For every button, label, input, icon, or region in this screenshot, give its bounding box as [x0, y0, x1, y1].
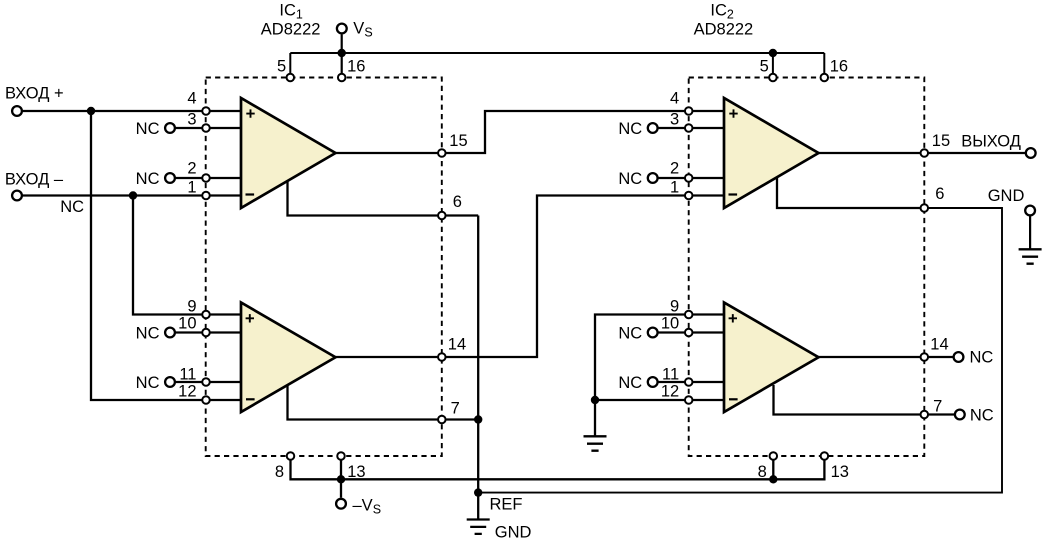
pin 10 IC2	[685, 329, 693, 337]
svg-text:AD8222: AD8222	[261, 21, 321, 39]
wire supply rail to IC2	[290, 52, 824, 54]
pin 4 IC1	[202, 107, 210, 115]
wire IC1 pin 13 to −VS terminal	[340, 456, 342, 498]
op-amp IC2A triangle	[724, 98, 819, 208]
wire ВХОД− to IC1 pin 1 and amp input	[17, 194, 241, 196]
svg-text:16: 16	[830, 57, 848, 75]
NC terminal IC1 pin 3	[165, 123, 175, 133]
pin 14 IC1	[438, 353, 446, 361]
svg-text:1: 1	[670, 179, 679, 197]
pin 11 IC1	[202, 378, 210, 386]
svg-text:13: 13	[347, 463, 365, 481]
wire NC stub IC1 pin 11	[170, 381, 241, 383]
svg-text:GND: GND	[495, 524, 532, 542]
svg-text:14: 14	[930, 336, 948, 354]
pin 7 IC2	[921, 411, 929, 419]
NC terminal IC2 pin 11	[648, 377, 658, 387]
svg-text:12: 12	[661, 383, 679, 401]
junction ВХОД− node	[129, 191, 137, 199]
svg-text:NC: NC	[618, 120, 642, 138]
pin 1 IC1	[202, 192, 210, 200]
svg-text:VS: VS	[353, 20, 372, 40]
pin 3 IC1	[202, 124, 210, 132]
pin 10 IC1	[202, 329, 210, 337]
svg-text:5: 5	[760, 57, 769, 75]
junction −VS rail at IC1	[337, 475, 345, 483]
svg-text:9: 9	[670, 298, 679, 316]
ground GND output terminal	[1019, 249, 1042, 263]
wire IC1B output pin 14 to IC2 pin 1	[336, 196, 725, 358]
NC terminal IC1 pin 11	[165, 377, 175, 387]
svg-text:13: 13	[831, 463, 849, 481]
svg-text:15: 15	[449, 132, 467, 150]
op-amp IC1A minus mark	[246, 193, 255, 195]
op-amp IC1B plus mark	[246, 314, 254, 322]
NC terminal IC2 pin 10	[648, 328, 658, 338]
terminal VS	[337, 24, 347, 34]
wire REF vertical from pin 6 node	[477, 216, 479, 493]
svg-text:REF: REF	[490, 496, 523, 514]
junction ВХОД+ node	[87, 107, 95, 115]
pin 6 IC2	[921, 204, 929, 212]
svg-text:2: 2	[187, 160, 196, 178]
IC1 dashed package outline	[206, 78, 442, 457]
svg-text:NC: NC	[60, 198, 84, 216]
svg-text:NC: NC	[136, 120, 160, 138]
svg-text:NC: NC	[618, 170, 642, 188]
NC terminal IC2 pin 14	[954, 352, 964, 362]
NC terminal IC1 pin 2	[165, 173, 175, 183]
pin 11 IC2	[685, 378, 693, 386]
op-amp IC1B triangle	[241, 303, 336, 413]
svg-text:NC: NC	[970, 349, 994, 367]
pin 16 IC1	[338, 74, 346, 82]
wire IC2A output pin 15 to ВЫХОД	[819, 152, 1031, 154]
pin 16 IC2	[821, 74, 829, 82]
terminal −VS	[336, 499, 346, 509]
wire IC2 pin 8 drop	[772, 456, 774, 479]
svg-text:6: 6	[935, 185, 944, 203]
svg-text:NC: NC	[618, 324, 642, 342]
svg-text:2: 2	[670, 160, 679, 178]
pin 9 IC1	[202, 311, 210, 319]
svg-text:NC: NC	[136, 170, 160, 188]
pin 13 IC2	[821, 452, 829, 460]
wire VS drop to pin 16	[341, 35, 343, 78]
pin 2 IC2	[685, 174, 693, 182]
terminal ВХОД+	[12, 106, 22, 116]
svg-text:11: 11	[179, 366, 196, 384]
svg-text:IC2: IC2	[710, 2, 734, 22]
svg-text:16: 16	[347, 57, 365, 75]
svg-text:11: 11	[662, 366, 679, 384]
wire ВХОД+ to IC1 pin 4 and amp input	[17, 110, 241, 112]
pin 1 IC2	[685, 192, 693, 200]
svg-text:–VS: –VS	[353, 497, 382, 517]
pin 14 IC2	[921, 353, 929, 361]
pin 5 IC1	[287, 74, 295, 82]
pin 3 IC2	[685, 124, 693, 132]
NC terminal IC1 pin 10	[165, 328, 175, 338]
op-amp IC2A minus mark	[729, 193, 738, 195]
junction VS rail at IC1	[338, 49, 346, 57]
svg-text:5: 5	[277, 57, 286, 75]
wire IC2 pin 9 to ground branch	[595, 315, 724, 401]
svg-text:1: 1	[187, 179, 196, 197]
wire REF node to IC2 pin 6	[478, 208, 1002, 493]
pin 4 IC2	[685, 107, 693, 115]
wire NC stub IC1 pin 3	[170, 127, 241, 129]
svg-text:ВЫХОД: ВЫХОД	[961, 133, 1021, 151]
wire IC2A feedback to pin 6	[777, 175, 924, 208]
op-amp IC2B triangle	[724, 303, 819, 413]
svg-text:4: 4	[670, 89, 679, 107]
wire IC1A output pin 15 to IC2 pin 4	[336, 111, 725, 153]
junction IC2 ground node	[591, 396, 599, 404]
junction −VS rail at IC2 pin 8	[769, 475, 777, 483]
svg-text:9: 9	[187, 298, 196, 316]
svg-text:6: 6	[453, 193, 462, 211]
pin 9 IC2	[685, 311, 693, 319]
wire REF node to ground	[477, 493, 479, 520]
svg-text:14: 14	[448, 336, 466, 354]
pin 13 IC1	[337, 452, 345, 460]
NC terminal IC2 pin 3	[648, 123, 658, 133]
svg-text:7: 7	[451, 400, 460, 418]
svg-text:NC: NC	[618, 374, 642, 392]
svg-text:NC: NC	[136, 374, 160, 392]
wire IC1B feedback to pin 7	[288, 383, 479, 420]
wire NC stub IC1 pin 10	[170, 331, 241, 333]
wire NC stub IC2 pin 11	[653, 381, 724, 383]
pin 6 IC1	[438, 212, 446, 220]
wire NC stub IC1 pin 2	[170, 177, 241, 179]
junction supply rail at IC2 pin 5	[769, 49, 777, 57]
op-amp IC1B minus mark	[246, 398, 255, 400]
svg-text:15: 15	[932, 132, 950, 150]
svg-text:NC: NC	[136, 324, 160, 342]
pin 8 IC1	[287, 452, 295, 460]
pin 5 IC2	[769, 74, 777, 82]
junction REF node	[474, 488, 482, 496]
wire supply drop IC2 pin 5	[772, 53, 774, 78]
terminal GND	[1025, 206, 1035, 216]
pin 12 IC1	[202, 396, 210, 404]
NC terminal IC2 pin 7	[955, 410, 965, 420]
wire IC1A feedback to pin 6	[288, 179, 479, 216]
svg-text:ВХОД –: ВХОД –	[5, 171, 64, 189]
op-amp IC1A triangle	[241, 98, 336, 208]
pin 2 IC1	[202, 174, 210, 182]
svg-text:ВХОД +: ВХОД +	[5, 85, 64, 103]
svg-text:AD8222: AD8222	[694, 21, 754, 39]
svg-text:12: 12	[178, 383, 196, 401]
svg-text:10: 10	[178, 314, 196, 332]
svg-text:8: 8	[758, 463, 767, 481]
op-amp IC1A plus mark	[246, 109, 254, 117]
terminal ВХОД−	[12, 191, 22, 201]
wire IC2 ground drop	[594, 400, 596, 436]
wire NC stub IC2 pin 2	[653, 177, 724, 179]
svg-text:8: 8	[275, 463, 284, 481]
wire ВХОД− branch down to pin 9	[133, 196, 241, 315]
terminal ВЫХОД	[1026, 148, 1036, 158]
wire IC2 pin 13 drop	[773, 456, 824, 479]
wire supply drop IC1 pin 5	[289, 53, 291, 78]
pin 15 IC2	[921, 149, 929, 157]
svg-text:3: 3	[187, 110, 196, 128]
wire IC2B feedback to pin 7 and NC	[774, 385, 960, 415]
pin 7 IC1	[438, 416, 446, 424]
pin 8 IC2	[770, 452, 778, 460]
wire ВХОД+ branch down to pin 12	[91, 111, 241, 400]
svg-text:7: 7	[933, 398, 942, 416]
ground REF	[467, 520, 490, 534]
pin 15 IC1	[438, 149, 446, 157]
wire supply drop IC2 pin 16	[823, 53, 825, 78]
wire IC2B output pin 14 to NC	[819, 356, 959, 358]
ground IC2 pin 9/12	[584, 436, 607, 450]
NC terminal IC2 pin 2	[648, 173, 658, 183]
junction pin 7 on REF vertical	[474, 415, 482, 423]
wire NC stub IC2 pin 3	[653, 127, 724, 129]
wire NC stub IC2 pin 10	[653, 331, 724, 333]
pin 12 IC2	[685, 396, 693, 404]
wire GND terminal drop	[1029, 211, 1031, 250]
op-amp IC2B minus mark	[729, 398, 738, 400]
svg-text:3: 3	[670, 110, 679, 128]
svg-text:NC: NC	[970, 406, 994, 424]
wire IC1 pin 8 to −VS rail	[291, 456, 774, 479]
IC2 dashed package outline	[689, 78, 925, 457]
svg-text:IC1: IC1	[279, 2, 303, 22]
svg-text:GND: GND	[988, 187, 1025, 205]
op-amp IC2B plus mark	[729, 314, 737, 322]
svg-text:4: 4	[187, 89, 196, 107]
svg-text:10: 10	[661, 314, 679, 332]
op-amp IC2A plus mark	[729, 109, 737, 117]
